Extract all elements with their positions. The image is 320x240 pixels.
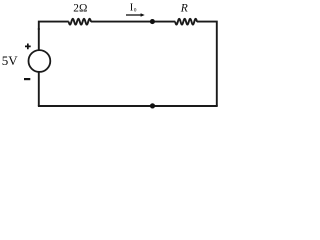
svg-text:5V: 5V xyxy=(2,53,19,68)
svg-text:0: 0 xyxy=(134,8,137,14)
plus sign xyxy=(25,44,31,50)
wire top-left to 2ohm resistor xyxy=(39,22,69,30)
svg-text:2Ω: 2Ω xyxy=(73,3,87,15)
bottom wire xyxy=(38,105,218,107)
resistor R1 2ohm zigzag xyxy=(69,19,91,25)
node B junction dot bottom xyxy=(150,103,155,108)
resistor R zigzag xyxy=(175,19,197,25)
voltage source V1 circle xyxy=(29,50,51,72)
node A junction dot top xyxy=(150,19,155,24)
current arrow I0 xyxy=(126,14,141,16)
wire 2ohm to node A xyxy=(91,21,176,23)
left wire through source xyxy=(38,28,40,106)
minus sign xyxy=(24,78,30,80)
wire R to top-right corner and down xyxy=(197,22,217,106)
svg-text:R: R xyxy=(180,3,188,15)
